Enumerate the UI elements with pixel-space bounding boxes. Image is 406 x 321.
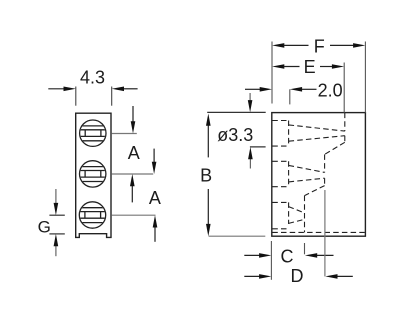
pitch line at LED1 center <box>112 133 137 135</box>
LED lens circle 3 <box>79 202 107 228</box>
dimension D left arrow <box>244 274 271 279</box>
dimension 4.3 extension line right <box>111 87 113 106</box>
svg-text:D: D <box>291 266 304 286</box>
pitch line at LED2 center <box>112 173 153 175</box>
dia 3.3 up arrow <box>248 147 253 169</box>
C/D left extension line <box>270 241 272 280</box>
dimension 2.0 right arrow <box>290 87 317 92</box>
dimension G up arrow <box>54 234 59 256</box>
dimension B up arrow (top) <box>206 114 211 158</box>
dimension 4.3 label <box>80 68 105 88</box>
slot wall between cavity 1 and 2 <box>324 154 326 185</box>
svg-text:F: F <box>314 36 325 56</box>
cavity 3 hole box <box>272 202 288 228</box>
svg-text:4.3: 4.3 <box>80 68 105 88</box>
D right extension line (to LED2 slot) <box>324 190 326 276</box>
dimension C left arrow <box>244 253 271 258</box>
dimension E label <box>304 57 316 77</box>
dimension E line with outward arrows <box>272 64 344 69</box>
cavity 1 taper cone <box>289 125 345 141</box>
dimension D label <box>291 266 304 286</box>
F/E/2.0 left extension line <box>271 42 273 104</box>
cavity 2 step diagonal <box>305 186 325 196</box>
cavity 2 hole box <box>272 161 288 186</box>
svg-text:A: A <box>149 188 161 208</box>
F right extension line <box>364 42 366 113</box>
dia 3.3 down arrow <box>248 93 253 112</box>
B / dia 3.3 top reference line <box>207 111 266 113</box>
cavity 2 taper cone <box>289 165 325 182</box>
dimension B label <box>200 166 212 186</box>
dimension F label <box>314 36 325 56</box>
cavity 1 slot to top face <box>344 113 346 143</box>
dia 3.3 label <box>217 125 253 145</box>
dimension 2.0 left arrow <box>245 87 272 92</box>
dimension G down arrow <box>54 189 59 215</box>
cavity 3 taper cone <box>289 207 305 224</box>
dimension 4.3 left arrow <box>48 87 76 92</box>
pitch dim up arrow to LED3 line <box>153 215 158 242</box>
left view body outline <box>76 113 111 237</box>
dimension C right arrow <box>305 253 334 258</box>
pitch dim down arrow to LED2 line <box>152 149 157 174</box>
dimension 4.3 extension line left <box>75 87 77 106</box>
dimension B down arrow (bottom) <box>206 189 211 236</box>
dimension G lower tick line <box>49 233 64 235</box>
slot wall between cavity 2 and 3 <box>304 196 306 233</box>
svg-text:B: B <box>200 166 212 186</box>
svg-text:E: E <box>304 57 316 77</box>
svg-text:ø3.3: ø3.3 <box>217 125 253 145</box>
dimension 2.0 extension corner at hole bottom <box>289 89 291 104</box>
svg-text:G: G <box>38 218 51 237</box>
cavity 1 step diagonal <box>325 142 345 154</box>
dimension F line with outward arrows <box>272 43 365 48</box>
B bottom reference line <box>209 235 266 237</box>
right view body outline <box>272 113 366 237</box>
dimension G upper tick line <box>49 214 64 216</box>
dimension label A (upper) <box>128 143 140 163</box>
svg-text:C: C <box>281 247 294 267</box>
pitch dim up arrow to LED2 line <box>130 174 135 202</box>
dimension label A (lower) <box>149 188 161 208</box>
E right extension line (to LED1 slot) <box>343 63 345 113</box>
pitch line at LED3 center <box>112 214 156 216</box>
C right extension line <box>304 243 306 254</box>
dimension label G <box>38 218 51 237</box>
LED lens circle 1 <box>79 120 107 146</box>
svg-text:2.0: 2.0 <box>318 80 343 100</box>
dia 3.3 lower reference line <box>250 146 266 148</box>
dimension D right arrow <box>325 274 353 279</box>
pitch dim down arrow to LED1 line <box>131 106 136 134</box>
hidden step line at body bottom <box>272 231 365 233</box>
svg-text:A: A <box>128 143 140 163</box>
LED lens circle 2 <box>79 161 107 187</box>
cavity 1 hole box top <box>272 121 288 147</box>
dimension 2.0 label <box>318 80 343 100</box>
dimension 4.3 right arrow <box>112 87 138 92</box>
dimension C label <box>281 247 294 267</box>
